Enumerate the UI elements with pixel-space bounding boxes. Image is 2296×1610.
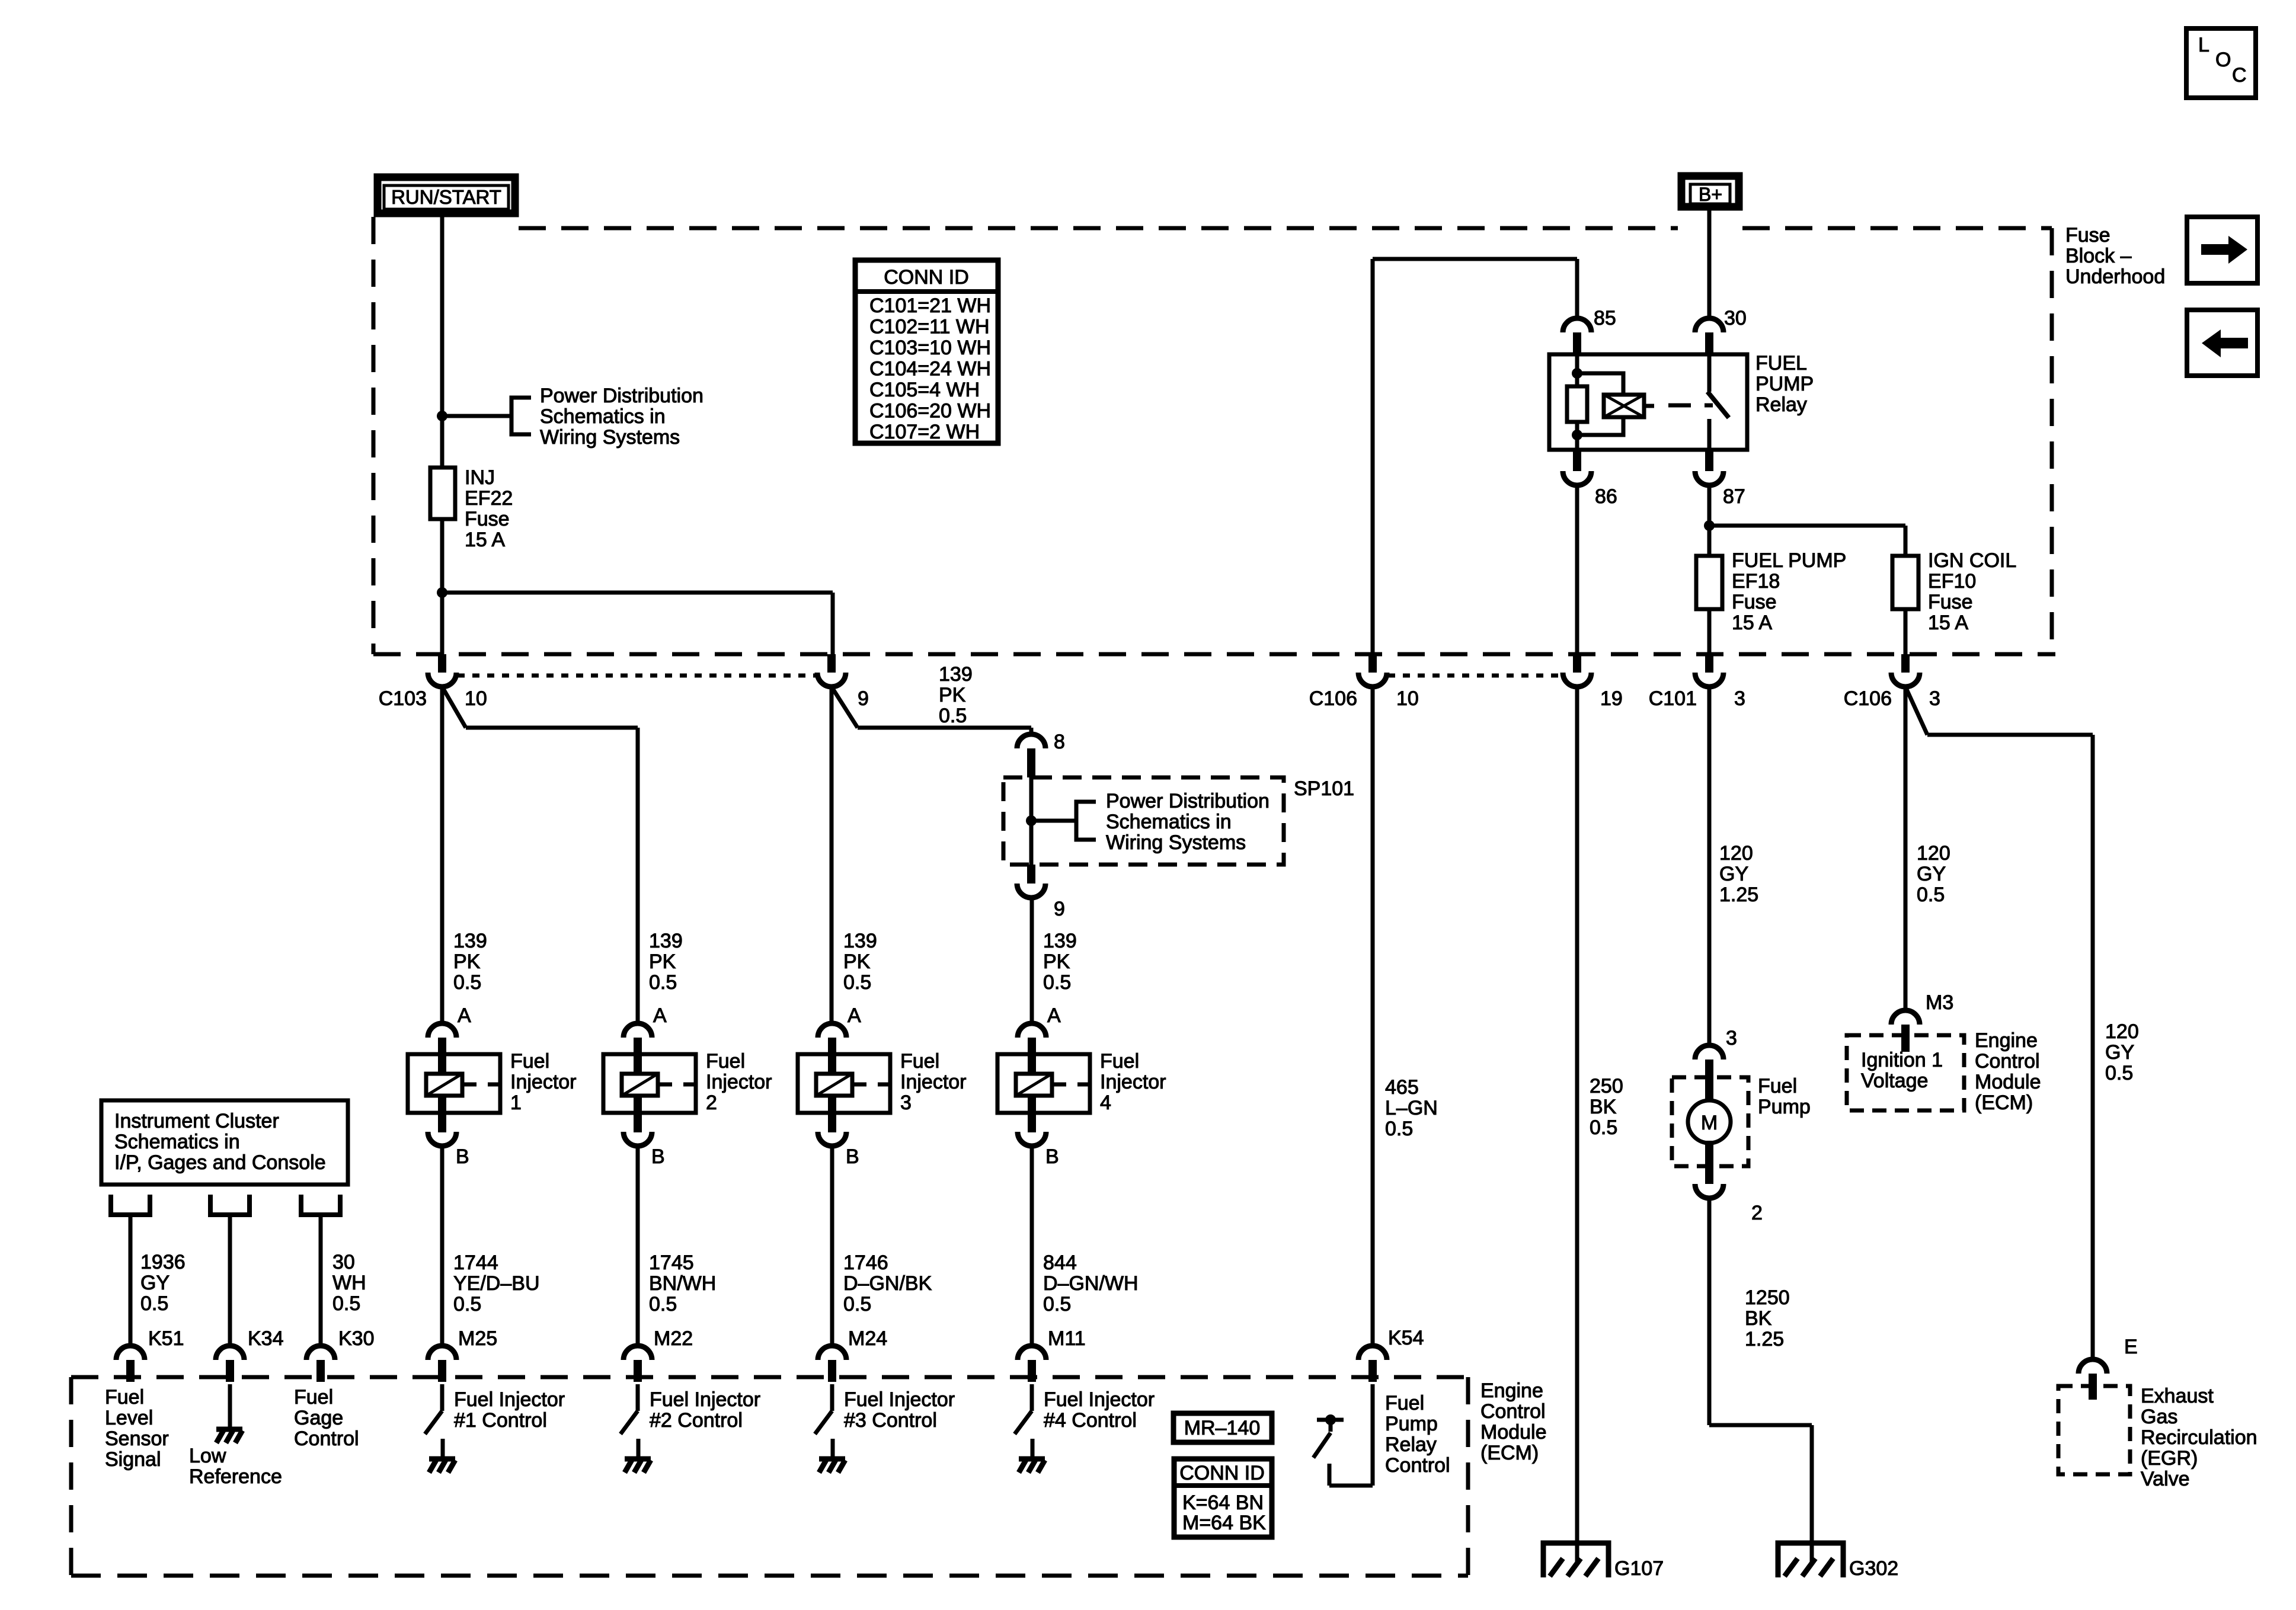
connector pin A injector 3 [818, 1023, 846, 1038]
LOC legend box [2186, 28, 2256, 98]
ground low reference [216, 1427, 242, 1432]
svg-text:C107=2 WH: C107=2 WH [869, 421, 980, 443]
wire through SP101 [1029, 777, 1034, 865]
ECM dashed border bottom [71, 1574, 1468, 1578]
svg-text:Fuel: Fuel [105, 1386, 144, 1409]
wire RUN/START feed down to C103-10 [440, 217, 445, 654]
ECM dashed border left [69, 1377, 73, 1576]
ECM dashed border top [71, 1375, 1468, 1379]
svg-text:8: 8 [1054, 731, 1065, 753]
fuse block dashed border left [372, 217, 376, 654]
svg-text:0.5: 0.5 [453, 1293, 481, 1315]
junction below EF22 fuse [437, 587, 447, 598]
wire down to EGR valve [2091, 735, 2095, 1359]
svg-text:9: 9 [1054, 898, 1065, 920]
svg-text:15 A: 15 A [1928, 612, 1968, 634]
svg-text:Schematics in: Schematics in [114, 1131, 240, 1153]
connector C106 pin 3 [1901, 654, 1910, 673]
svg-text:15 A: 15 A [1732, 612, 1772, 634]
svg-text:YE/D–BU: YE/D–BU [453, 1272, 540, 1295]
wire relay pin 85 up [1575, 259, 1579, 318]
svg-text:1250: 1250 [1745, 1286, 1790, 1309]
ECM driver switch arm injector 1 [425, 1411, 442, 1434]
svg-text:C105=4 WH: C105=4 WH [869, 379, 980, 401]
relay resistor [1567, 386, 1587, 422]
connector K54 ECM [1358, 1346, 1387, 1360]
svg-text:Wiring Systems: Wiring Systems [1106, 831, 1246, 854]
svg-text:0.5: 0.5 [1043, 971, 1071, 994]
ignition 1 voltage dashed box [1847, 1035, 1964, 1110]
wire injector 3 control to ECM [830, 1146, 834, 1346]
svg-text:C103=10 WH: C103=10 WH [869, 337, 991, 359]
ground ECM driver injector 2 [625, 1457, 651, 1462]
connector C101 pin 3 [1705, 654, 1713, 673]
svg-text:K34: K34 [248, 1327, 284, 1350]
fuse block dashed border bottom [373, 652, 2055, 657]
connector pin B injector 4 [1018, 1132, 1046, 1146]
svg-text:K=64 BN: K=64 BN [1182, 1491, 1264, 1514]
svg-text:(EGR): (EGR) [2141, 1447, 2198, 1470]
ECM driver stub injector 3 [831, 1439, 835, 1459]
splice SP101 dashed box [1003, 777, 1284, 865]
svg-text:PK: PK [453, 950, 481, 973]
svg-text:Pump: Pump [1758, 1096, 1811, 1118]
connector M3 ECM [1891, 1010, 1920, 1025]
connector pin A injector 2 [623, 1023, 652, 1038]
svg-text:Ignition 1: Ignition 1 [1861, 1049, 1943, 1071]
node RUN/START power feed box [378, 177, 515, 213]
svg-text:1936: 1936 [140, 1251, 186, 1273]
fuse EF22 INJ 15A [430, 468, 455, 519]
wire diagonal branch from pin 9 [832, 687, 858, 728]
wire B+ down to relay pin 30 [1707, 210, 1712, 318]
svg-text:3: 3 [1726, 1027, 1737, 1049]
svg-text:Fuel Injector: Fuel Injector [844, 1388, 955, 1411]
svg-text:139: 139 [939, 663, 973, 686]
connector pin B injector 1 [428, 1132, 456, 1146]
svg-text:M3: M3 [1926, 991, 1953, 1014]
svg-text:D–GN/WH: D–GN/WH [1043, 1272, 1139, 1295]
svg-text:B: B [1045, 1145, 1059, 1168]
svg-text:M22: M22 [654, 1327, 693, 1350]
svg-text:Valve: Valve [2141, 1468, 2190, 1490]
wire diagonal branch from pin 10 [442, 687, 466, 728]
svg-text:0.5: 0.5 [2105, 1062, 2133, 1084]
svg-text:Fuel: Fuel [900, 1050, 939, 1073]
svg-text:120: 120 [1917, 842, 1950, 865]
svg-text:IGN COIL: IGN COIL [1928, 549, 2016, 572]
svg-text:O: O [2215, 49, 2231, 71]
svg-text:GY: GY [1917, 863, 1946, 885]
svg-text:PK: PK [1043, 950, 1070, 973]
wire C106-3 down to M3 [1904, 687, 1908, 1010]
mechanical link nub [1705, 404, 1713, 408]
fuel injector 1 [408, 1054, 500, 1113]
ECM driver wire injector 1 [440, 1384, 445, 1411]
svg-text:Engine: Engine [1975, 1029, 2038, 1052]
svg-text:3: 3 [900, 1092, 912, 1114]
svg-text:#1 Control: #1 Control [454, 1409, 547, 1432]
svg-text:GY: GY [140, 1272, 170, 1294]
svg-text:139: 139 [1043, 930, 1077, 952]
svg-text:M=64 BK: M=64 BK [1182, 1512, 1266, 1534]
relay coil loop wires [1577, 373, 1623, 435]
svg-text:1.25: 1.25 [1745, 1328, 1784, 1350]
svg-text:Power Distribution: Power Distribution [540, 385, 703, 407]
MR-140 box [1173, 1413, 1272, 1442]
svg-text:Fuel Injector: Fuel Injector [1044, 1388, 1155, 1411]
svg-text:87: 87 [1723, 485, 1745, 508]
node B+ battery feed box [1681, 176, 1739, 207]
wire injector 4 control to ECM [1030, 1146, 1034, 1346]
wire branch to power distribution pointer [442, 414, 511, 418]
CONN ID table [855, 260, 998, 443]
connector pin B injector 2 [623, 1132, 652, 1146]
svg-text:Fuse: Fuse [1732, 591, 1777, 613]
svg-text:WH: WH [332, 1272, 366, 1294]
wire horizontal to injector 2 [466, 726, 638, 730]
svg-text:FUEL PUMP: FUEL PUMP [1732, 549, 1846, 572]
svg-text:M25: M25 [458, 1327, 497, 1350]
svg-text:1: 1 [510, 1092, 522, 1114]
svg-text:15 A: 15 A [465, 529, 505, 551]
svg-text:PUMP: PUMP [1755, 373, 1814, 395]
ECM driver switch arm injector 4 [1015, 1411, 1032, 1434]
junction SP101 splice [1026, 815, 1037, 826]
svg-text:Relay: Relay [1385, 1433, 1437, 1456]
svg-text:GY: GY [2105, 1041, 2134, 1064]
svg-text:C102=11 WH: C102=11 WH [869, 316, 990, 338]
ECM driver stub injector 2 [637, 1439, 641, 1459]
relay switch lower wire [1707, 419, 1712, 450]
fuse EF10 IGN COIL 15A [1892, 556, 1918, 609]
svg-text:Relay: Relay [1755, 393, 1807, 416]
svg-text:0.5: 0.5 [1917, 884, 1945, 906]
connector E EGR [2078, 1359, 2107, 1374]
svg-text:M11: M11 [1048, 1327, 1086, 1350]
svg-text:139: 139 [453, 930, 487, 952]
ECM driver stub injector 1 [441, 1439, 445, 1459]
svg-text:#2 Control: #2 Control [650, 1409, 743, 1432]
svg-text:0.5: 0.5 [332, 1292, 360, 1315]
ECM wire K54 to driver [1371, 1384, 1375, 1486]
svg-text:A: A [653, 1004, 667, 1027]
svg-text:Sensor: Sensor [105, 1427, 169, 1450]
svg-text:139: 139 [649, 930, 683, 952]
svg-text:C106=20 WH: C106=20 WH [869, 400, 991, 422]
wire horizontal to EGR column [1927, 733, 2093, 737]
svg-text:Fuel Injector: Fuel Injector [454, 1388, 565, 1411]
wire C103-9 down to injector 3 [830, 687, 834, 1023]
svg-text:85: 85 [1594, 307, 1616, 329]
right arrow legend box [2187, 217, 2257, 283]
svg-text:0.5: 0.5 [1043, 1293, 1071, 1315]
svg-text:Schematics in: Schematics in [540, 405, 666, 428]
svg-text:Fuel: Fuel [706, 1050, 745, 1073]
connector K30 [306, 1346, 335, 1360]
ECM fuel pump relay driver switch [1317, 1418, 1344, 1422]
ECM driver wire injector 2 [636, 1384, 640, 1411]
wire pin 86 down to 19 [1575, 485, 1579, 654]
svg-text:86: 86 [1595, 485, 1617, 508]
instrument cluster schematics box [101, 1100, 348, 1185]
svg-text:Engine: Engine [1480, 1379, 1543, 1402]
svg-text:0.5: 0.5 [453, 971, 481, 994]
ECM driver wire injector 3 [830, 1384, 834, 1411]
svg-text:465: 465 [1385, 1076, 1419, 1099]
svg-text:Injector: Injector [1100, 1071, 1166, 1093]
svg-text:C: C [2232, 64, 2247, 87]
relay switch blade [1707, 392, 1729, 418]
svg-text:INJ: INJ [465, 466, 495, 489]
svg-text:Control: Control [1385, 1454, 1450, 1477]
wire 19 down to G107 [1575, 687, 1579, 1543]
junction on RUN/START feed [437, 411, 447, 421]
svg-text:L: L [2198, 34, 2209, 56]
svg-text:#4 Control: #4 Control [1044, 1409, 1137, 1432]
svg-text:B: B [846, 1145, 859, 1168]
fuel injector 2 [603, 1054, 696, 1113]
svg-text:0.5: 0.5 [1590, 1116, 1617, 1139]
connector SP101 pin 8 [1017, 734, 1045, 748]
ground G107 [1543, 1543, 1609, 1577]
svg-text:Injector: Injector [900, 1071, 967, 1093]
connector SP101 pin 9 [1027, 865, 1035, 884]
connector C103 dotted line [458, 674, 818, 678]
svg-text:A: A [848, 1004, 861, 1027]
connector pin A injector 1 [428, 1023, 456, 1038]
ground ECM driver injector 3 [819, 1457, 845, 1462]
fuse block dashed border right [2050, 228, 2054, 654]
svg-text:Wiring Systems: Wiring Systems [540, 426, 680, 449]
svg-text:0.5: 0.5 [1385, 1118, 1413, 1140]
svg-text:RUN/START: RUN/START [391, 186, 501, 208]
svg-text:139: 139 [843, 930, 877, 952]
instrument cluster bracket at 388 [210, 1195, 250, 1215]
svg-text:Fuse: Fuse [465, 508, 510, 530]
svg-text:C106: C106 [1309, 687, 1357, 710]
svg-text:D–GN/BK: D–GN/BK [843, 1272, 932, 1295]
relay junction bottom [1572, 430, 1582, 440]
svg-text:B: B [456, 1145, 469, 1168]
connector pin 19 [1573, 654, 1581, 673]
svg-text:BK: BK [1745, 1307, 1772, 1330]
fuel pump motor M [1688, 1100, 1731, 1143]
wire instrument cluster to ECM at 388 [228, 1215, 232, 1346]
svg-text:SP101: SP101 [1294, 777, 1354, 800]
fuse EF18 FUEL PUMP 15A [1696, 556, 1722, 609]
svg-text:Module: Module [1975, 1071, 2041, 1093]
svg-text:PK: PK [939, 684, 966, 706]
wire down to C106-10 [1371, 259, 1375, 654]
svg-text:C101: C101 [1649, 687, 1697, 710]
connector pin 2 fuel pump [1705, 1166, 1713, 1184]
relay switch fixed wire [1707, 354, 1712, 392]
ECM driver switch arm injector 2 [621, 1411, 638, 1434]
svg-text:Level: Level [105, 1407, 153, 1429]
svg-text:L–GN: L–GN [1385, 1097, 1438, 1119]
wire branch to EF10 [1709, 524, 1905, 528]
fuse block dashed border top-right segment [1742, 226, 2052, 231]
wire to SP101 pointer [1031, 819, 1076, 823]
svg-text:MR–140: MR–140 [1184, 1417, 1261, 1439]
svg-text:2: 2 [706, 1092, 717, 1114]
svg-text:C101=21 WH: C101=21 WH [869, 295, 991, 317]
svg-text:I/P, Gages and Console: I/P, Gages and Console [114, 1151, 326, 1174]
ground G302 [1778, 1543, 1843, 1577]
left arrow legend box [2187, 310, 2257, 376]
svg-text:Gage: Gage [294, 1407, 343, 1429]
svg-text:Injector: Injector [706, 1071, 772, 1093]
wire down to G302 [1810, 1425, 1814, 1543]
svg-text:GY: GY [1719, 863, 1748, 885]
wire pin 85 left to C106-10 column [1373, 257, 1577, 261]
fuel pump motor dashed box [1672, 1077, 1748, 1166]
wire instrument cluster to ECM at 220 [129, 1215, 133, 1346]
svg-text:Exhaust: Exhaust [2141, 1385, 2214, 1407]
fuel injector 3 [798, 1054, 890, 1113]
svg-text:0.5: 0.5 [140, 1292, 168, 1315]
svg-text:Fuel: Fuel [510, 1050, 549, 1073]
connector C106 pin 10 [1368, 654, 1377, 673]
svg-text:(ECM): (ECM) [1480, 1442, 1539, 1464]
svg-text:(ECM): (ECM) [1975, 1092, 2033, 1114]
svg-text:C104=24 WH: C104=24 WH [869, 358, 991, 380]
relay pin 87 connector [1705, 450, 1713, 471]
ECM driver stub injector 4 [1031, 1439, 1035, 1459]
svg-text:K54: K54 [1388, 1327, 1424, 1349]
svg-text:C103: C103 [379, 687, 427, 710]
relay pin 86 connector [1573, 450, 1581, 471]
svg-text:Block –: Block – [2065, 245, 2132, 267]
svg-text:Low: Low [189, 1445, 226, 1467]
pointer bracket power distribution [511, 398, 531, 434]
wire fuel pump to ground jog [1707, 1198, 1712, 1425]
svg-text:Schematics in: Schematics in [1106, 811, 1232, 833]
svg-text:10: 10 [465, 687, 487, 710]
svg-text:844: 844 [1043, 1251, 1077, 1274]
svg-text:1745: 1745 [649, 1251, 694, 1274]
wire instrument cluster to ECM at 541 [319, 1215, 323, 1346]
svg-text:Control: Control [294, 1427, 359, 1450]
svg-text:Underhood: Underhood [2065, 265, 2165, 288]
svg-text:Module: Module [1480, 1421, 1547, 1443]
relay pin 30 connector [1695, 318, 1723, 332]
connector pin A injector 4 [1018, 1023, 1046, 1038]
wire injector 2 control to ECM [636, 1146, 640, 1346]
svg-text:CONN ID: CONN ID [1179, 1462, 1265, 1484]
instrument cluster bracket at 220 [111, 1195, 150, 1215]
svg-text:#3 Control: #3 Control [844, 1409, 937, 1432]
wire down to injector 2 [636, 728, 640, 1023]
ECM dashed border right [1466, 1377, 1470, 1576]
svg-text:2: 2 [1751, 1202, 1763, 1224]
svg-text:3: 3 [1929, 687, 1940, 710]
svg-text:120: 120 [1719, 842, 1753, 865]
connector K51 [116, 1346, 145, 1360]
fuel injector 4 [997, 1054, 1090, 1113]
svg-text:PK: PK [843, 950, 871, 973]
connector pin B injector 3 [818, 1132, 846, 1146]
relay coil left wire [1575, 354, 1579, 450]
relay pin 85 connector [1563, 318, 1591, 332]
svg-text:C106: C106 [1844, 687, 1892, 710]
svg-text:EF18: EF18 [1732, 570, 1780, 593]
svg-text:FUEL: FUEL [1755, 352, 1807, 375]
svg-text:Fuel: Fuel [294, 1386, 333, 1409]
CONN ID small table [1174, 1459, 1272, 1537]
svg-text:B: B [651, 1145, 665, 1168]
wire injector 1 control to ECM [440, 1146, 445, 1346]
connector M11 ECM [1018, 1346, 1046, 1360]
ECM driver wire injector 4 [1030, 1384, 1034, 1411]
svg-text:Fuse: Fuse [1928, 591, 1973, 613]
svg-text:0.5: 0.5 [649, 971, 677, 994]
instrument cluster bracket at 541 [301, 1195, 340, 1215]
svg-text:BK: BK [1590, 1096, 1617, 1118]
wire down through EF10 [1904, 526, 1908, 654]
ECM driver switch arm injector 3 [815, 1411, 832, 1434]
svg-text:K30: K30 [338, 1327, 375, 1350]
svg-text:Injector: Injector [510, 1071, 577, 1093]
EGR valve dashed box [2058, 1386, 2130, 1474]
svg-text:EF10: EF10 [1928, 570, 1976, 593]
svg-text:A: A [458, 1004, 471, 1027]
svg-text:10: 10 [1396, 687, 1419, 710]
svg-text:1744: 1744 [453, 1251, 498, 1274]
relay junction top [1572, 368, 1582, 379]
svg-text:M24: M24 [848, 1327, 887, 1350]
wire pin 87 down to C101-3 [1707, 485, 1712, 654]
connector M25 ECM [428, 1346, 456, 1360]
svg-text:4: 4 [1100, 1092, 1111, 1114]
svg-text:0.5: 0.5 [939, 705, 967, 727]
svg-text:Gas: Gas [2141, 1406, 2177, 1428]
relay coil element [1604, 395, 1644, 417]
svg-text:E: E [2124, 1336, 2138, 1358]
svg-text:Fuel: Fuel [1758, 1075, 1797, 1097]
coil right stub [1644, 404, 1654, 408]
svg-text:3: 3 [1734, 687, 1745, 710]
svg-text:K51: K51 [148, 1327, 184, 1350]
wire C101-3 down to fuel pump [1707, 687, 1712, 1045]
relay U1 FUEL PUMP relay box [1549, 354, 1747, 450]
connector M24 ECM [818, 1346, 846, 1360]
connector C106 dotted line [1388, 674, 1565, 678]
wire diagonal branch from C106-3 [1905, 687, 1927, 735]
svg-text:0.5: 0.5 [843, 971, 871, 994]
junction pin 87 branch [1704, 520, 1715, 531]
svg-text:BN/WH: BN/WH [649, 1272, 716, 1295]
wire SP101 down to injector 4 [1030, 898, 1034, 1023]
svg-text:250: 250 [1590, 1075, 1623, 1097]
fuse block underhood dashed border top-left segment [519, 226, 1678, 231]
svg-text:Fuel: Fuel [1100, 1050, 1139, 1073]
svg-text:M: M [1701, 1112, 1718, 1134]
svg-text:Voltage: Voltage [1861, 1070, 1928, 1092]
svg-text:Control: Control [1480, 1400, 1546, 1423]
wire down to C103-9 [831, 593, 835, 654]
svg-text:Instrument Cluster: Instrument Cluster [114, 1110, 279, 1132]
mechanical link dash [1668, 404, 1691, 408]
pointer bracket SP101 [1076, 802, 1096, 840]
wire C106-10 down to K54 [1371, 687, 1375, 1346]
svg-text:Fuel Injector: Fuel Injector [650, 1388, 760, 1411]
svg-text:Fuel: Fuel [1385, 1392, 1424, 1414]
wire corner down to connector 8 [1029, 728, 1034, 735]
svg-text:Power Distribution: Power Distribution [1106, 790, 1269, 812]
svg-text:Recirculation: Recirculation [2141, 1426, 2257, 1449]
